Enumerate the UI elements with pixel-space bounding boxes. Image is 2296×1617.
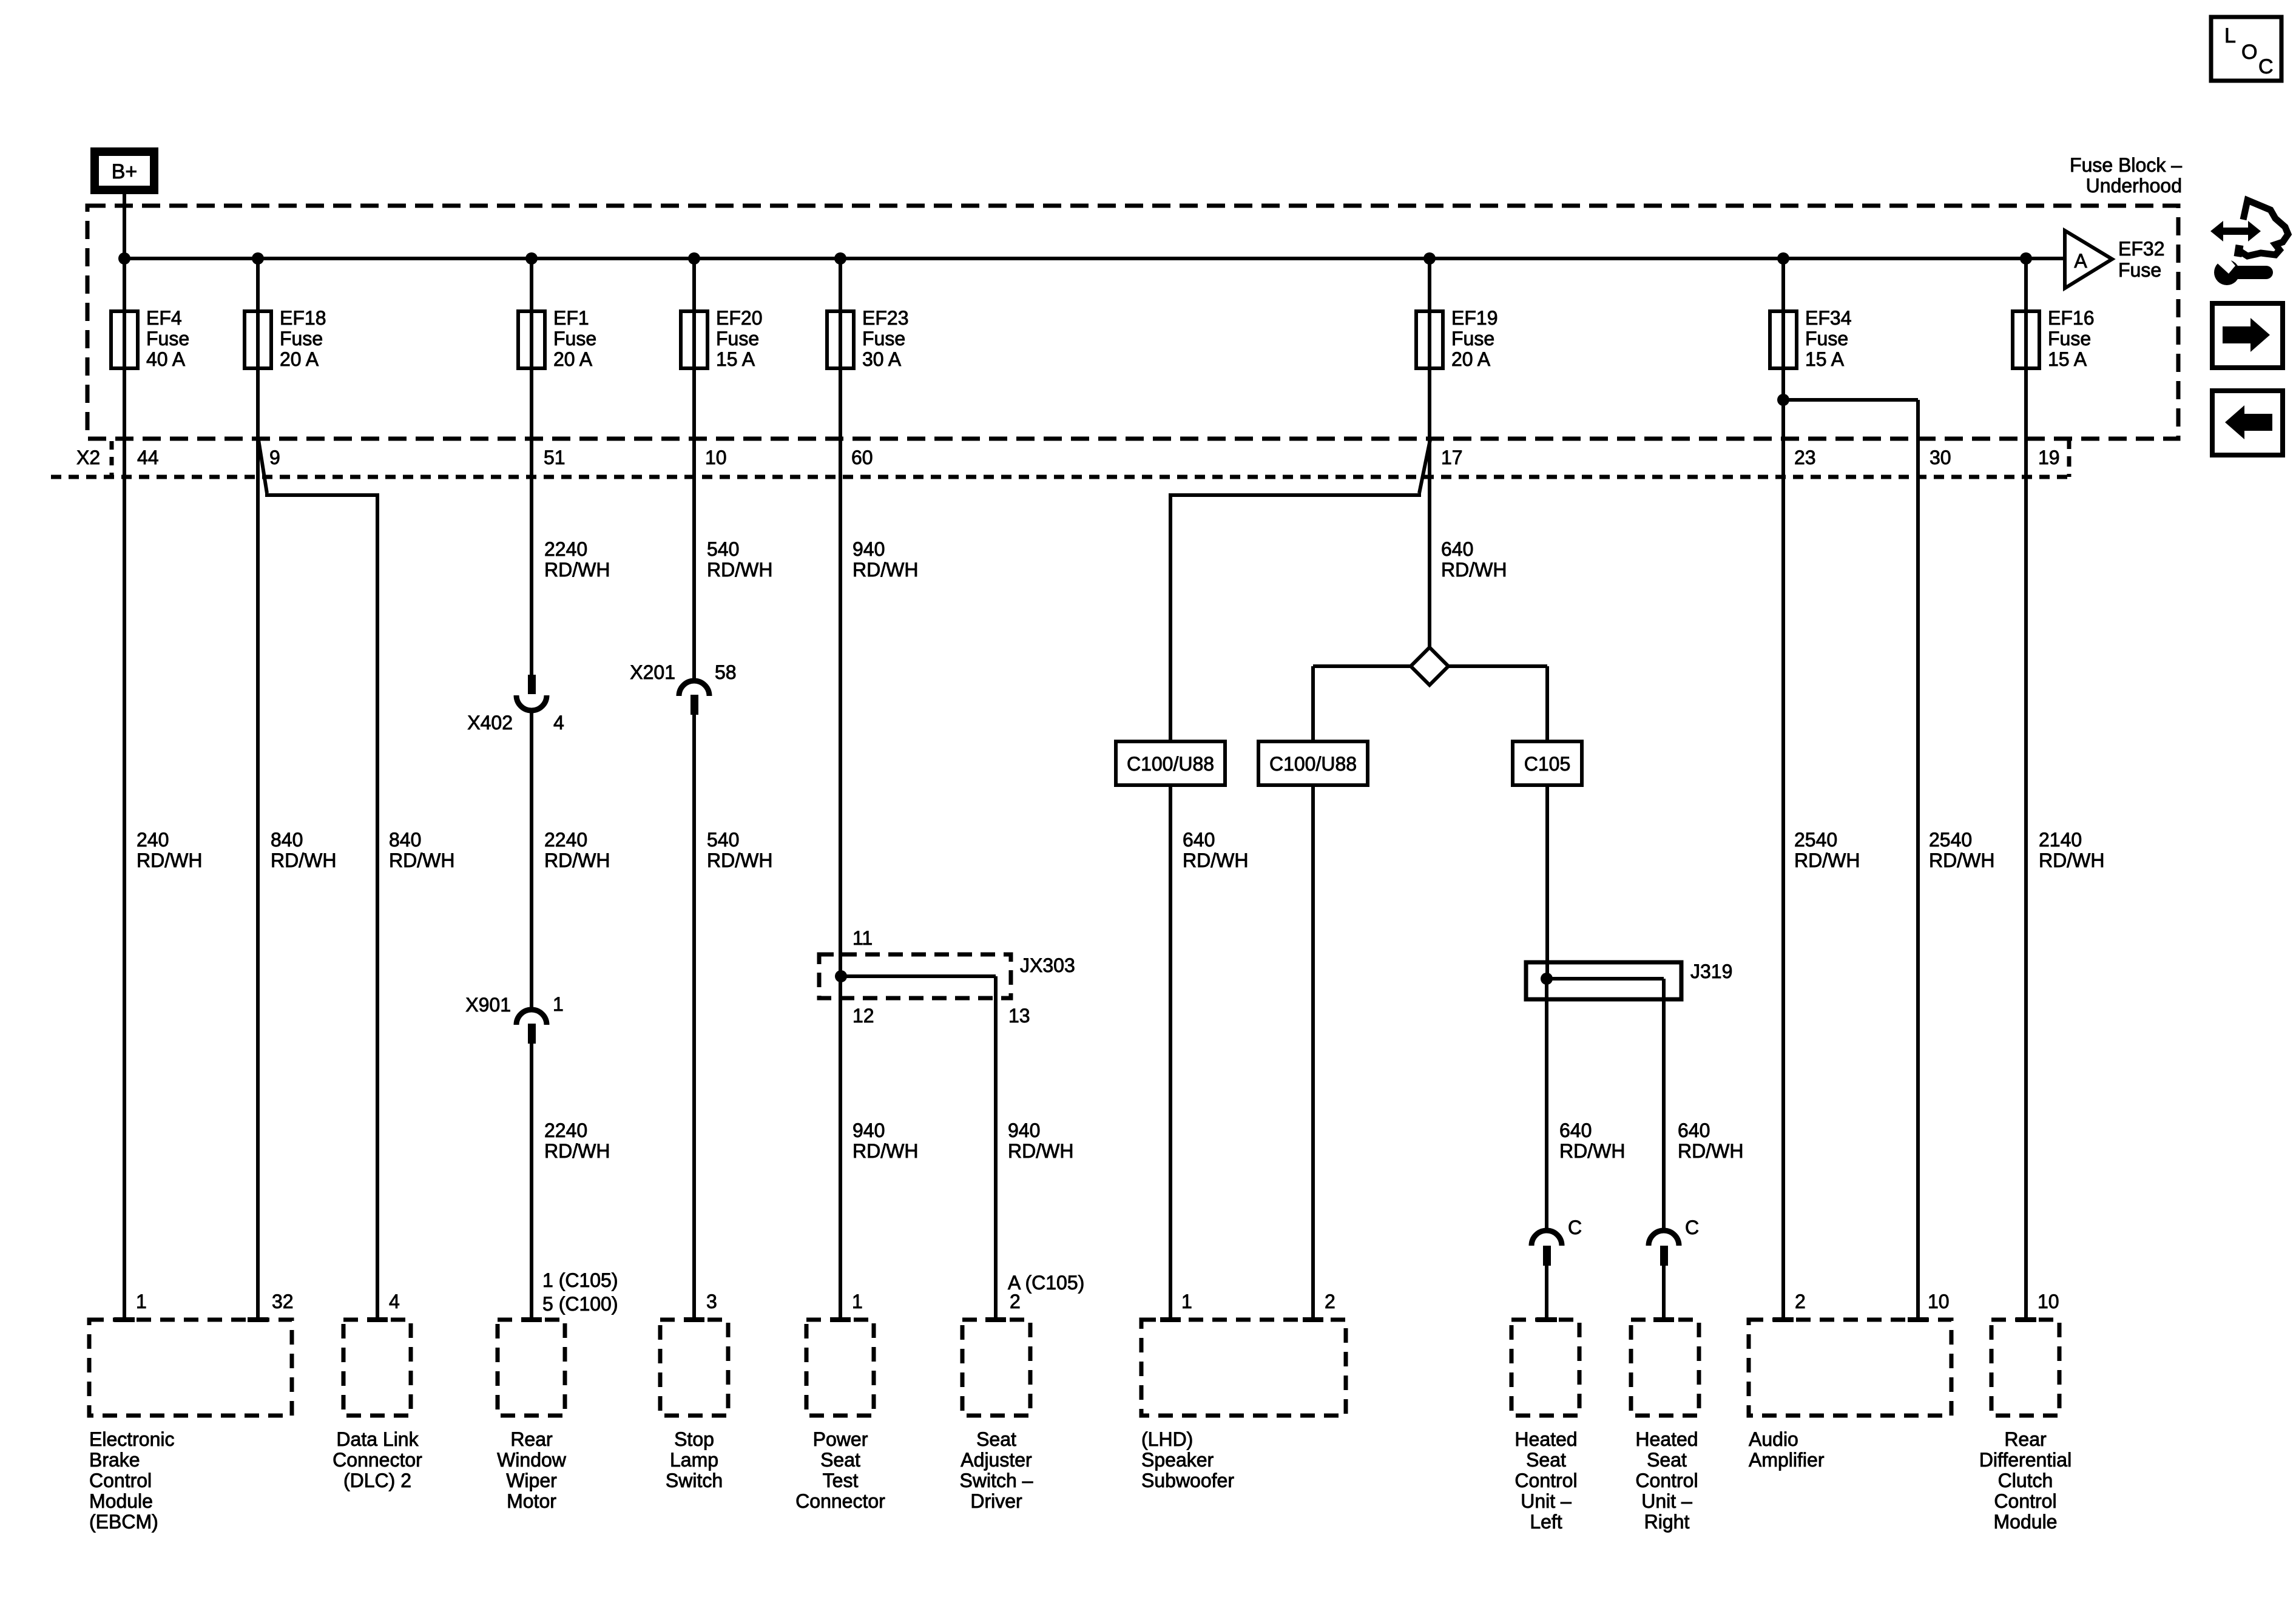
EF32 fuse label xyxy=(2118,238,2164,281)
wire label 940 RD/WH xyxy=(1008,1119,1073,1162)
fuse EF23 30 A xyxy=(827,258,908,370)
terminal tick seat adjuster pin 2 xyxy=(985,1317,1006,1322)
svg-text:19: 19 xyxy=(2038,447,2060,468)
svg-text:30 A: 30 A xyxy=(862,348,902,370)
svg-text:(LHD): (LHD) xyxy=(1141,1428,1193,1450)
fuse EF34 15 A xyxy=(1770,258,1851,370)
svg-text:940: 940 xyxy=(853,538,885,560)
component Rear Window Wiper Motor xyxy=(497,1320,567,1512)
svg-text:Module: Module xyxy=(89,1490,153,1512)
svg-text:EF4: EF4 xyxy=(146,307,182,329)
junction node in JX303 xyxy=(835,970,847,982)
svg-text:2540: 2540 xyxy=(1794,829,1837,851)
svg-text:RD/WH: RD/WH xyxy=(2039,849,2104,871)
svg-text:Control: Control xyxy=(1635,1470,1698,1491)
inline connector X402 pin 4 (male pin into socket) xyxy=(516,675,547,711)
junction node on bus at fuse EF4 xyxy=(118,252,130,265)
branch wire right from diamond to C105 xyxy=(1448,664,1547,668)
svg-text:30: 30 xyxy=(1930,447,1951,468)
svg-text:Clutch: Clutch xyxy=(1998,1470,2053,1491)
wire label 940 RD/WH xyxy=(853,538,918,581)
svg-text:C100/U88: C100/U88 xyxy=(1269,753,1357,775)
bus wire from B+ feeding all fuses xyxy=(124,257,2065,260)
svg-text:RD/WH: RD/WH xyxy=(1929,849,1994,871)
svg-text:O: O xyxy=(2241,41,2257,64)
svg-text:640: 640 xyxy=(1559,1119,1592,1141)
svg-text:9: 9 xyxy=(269,447,280,468)
wire 640 RD/WH J319 to heated seat right xyxy=(1662,979,1666,1230)
svg-text:EF32: EF32 xyxy=(2118,238,2164,260)
wire 2140 RD/WH from fuse EF16 pin 19 to rear differential module pin 10 xyxy=(2024,368,2028,1320)
svg-text:2240: 2240 xyxy=(544,829,587,851)
wire B+ to bus xyxy=(123,192,126,258)
svg-text:Electronic: Electronic xyxy=(89,1428,175,1450)
svg-text:EF1: EF1 xyxy=(553,307,589,329)
svg-text:20 A: 20 A xyxy=(553,348,593,370)
svg-text:2240: 2240 xyxy=(544,1119,587,1141)
svg-text:(DLC) 2: (DLC) 2 xyxy=(343,1470,411,1491)
svg-text:5 (C100): 5 (C100) xyxy=(542,1293,618,1315)
svg-text:RD/WH: RD/WH xyxy=(853,1140,918,1162)
junction node on bus at fuse EF23 xyxy=(834,252,846,265)
svg-text:20 A: 20 A xyxy=(1451,348,1491,370)
branch wire left from diamond to C100/U88 second xyxy=(1313,664,1411,668)
svg-text:Switch –: Switch – xyxy=(960,1470,1033,1491)
svg-text:Fuse: Fuse xyxy=(716,328,759,349)
svg-text:RD/WH: RD/WH xyxy=(1183,849,1248,871)
off-page connector A to EF32 fuse xyxy=(2065,231,2112,288)
wire to heated seat control unit right xyxy=(1662,1266,1666,1320)
svg-text:RD/WH: RD/WH xyxy=(707,559,772,581)
svg-text:C100/U88: C100/U88 xyxy=(1127,753,1214,775)
svg-text:2540: 2540 xyxy=(1929,829,1972,851)
J319 internal bus wire xyxy=(1547,977,1664,981)
svg-text:B+: B+ xyxy=(112,160,138,183)
svg-text:Test: Test xyxy=(823,1470,859,1491)
fuse block underhood dashed boundary xyxy=(87,206,2178,439)
svg-text:JX303: JX303 xyxy=(1020,954,1075,976)
svg-text:940: 940 xyxy=(1008,1119,1040,1141)
back arrow box xyxy=(2212,391,2283,455)
terminal tick wiper motor pin xyxy=(521,1317,542,1322)
svg-text:Lamp: Lamp xyxy=(670,1449,718,1471)
wire 240 RD/WH from fuse EF4 pin 44 to EBCM pin 1 xyxy=(123,368,126,1320)
svg-text:Fuse: Fuse xyxy=(553,328,596,349)
wire 2240 RD/WH from X901 to wiper motor xyxy=(530,1044,533,1320)
wire 2540 RD/WH from fuse EF34 pin 23 to audio amplifier pin 2 xyxy=(1781,368,1785,1320)
svg-text:RD/WH: RD/WH xyxy=(137,849,202,871)
svg-text:10: 10 xyxy=(2038,1291,2059,1312)
svg-text:540: 540 xyxy=(707,538,739,560)
svg-text:Switch: Switch xyxy=(666,1470,723,1491)
svg-text:RD/WH: RD/WH xyxy=(1794,849,1860,871)
svg-text:58: 58 xyxy=(715,661,737,683)
component Heated Seat Control Unit - Right xyxy=(1631,1320,1699,1533)
wire label 640 RD/WH xyxy=(1678,1119,1743,1162)
svg-text:J319: J319 xyxy=(1690,960,1732,982)
svg-text:Control: Control xyxy=(1514,1470,1577,1491)
component (LHD) Speaker Subwoofer xyxy=(1141,1320,1346,1491)
svg-text:A: A xyxy=(2074,250,2087,272)
terminal tick subwoofer pin 1 xyxy=(1160,1317,1181,1322)
svg-text:Right: Right xyxy=(1644,1511,1690,1533)
svg-text:1: 1 xyxy=(136,1291,147,1312)
svg-text:2140: 2140 xyxy=(2039,829,2082,851)
svg-text:X2: X2 xyxy=(76,447,100,468)
svg-text:C105: C105 xyxy=(1524,753,1571,775)
svg-text:RD/WH: RD/WH xyxy=(389,849,454,871)
svg-text:RD/WH: RD/WH xyxy=(544,559,610,581)
wiper motor pin label 1 (C105) / 5 (C100) xyxy=(542,1269,618,1315)
svg-text:RD/WH: RD/WH xyxy=(544,849,610,871)
svg-text:(EBCM): (EBCM) xyxy=(89,1511,158,1533)
svg-text:L: L xyxy=(2224,24,2236,47)
svg-text:1: 1 xyxy=(553,993,564,1015)
svg-text:44: 44 xyxy=(137,447,159,468)
ring terminal C left (socket over pin) xyxy=(1531,1230,1562,1266)
fuse EF20 15 A xyxy=(681,258,762,370)
svg-text:3: 3 xyxy=(706,1291,717,1312)
wire label 540 RD/WH xyxy=(707,829,772,871)
inline connector C100/U88 second xyxy=(1258,741,1368,785)
svg-text:Unit –: Unit – xyxy=(1641,1490,1692,1512)
inline connector C100/U88 first xyxy=(1116,741,1225,785)
junction node on bus at fuse EF20 xyxy=(688,252,700,265)
svg-text:12: 12 xyxy=(853,1005,874,1027)
svg-text:32: 32 xyxy=(272,1291,294,1312)
svg-text:Power: Power xyxy=(813,1428,868,1450)
svg-text:20 A: 20 A xyxy=(280,348,319,370)
terminal tick stop lamp pin 3 xyxy=(684,1317,704,1322)
connector X2 label separator xyxy=(110,441,114,476)
svg-text:15 A: 15 A xyxy=(2048,348,2087,370)
svg-text:Differential: Differential xyxy=(1979,1449,2071,1471)
terminal tick heated seat right pin C xyxy=(1653,1317,1674,1322)
wire 540 RD/WH from X201 to stop lamp switch pin 3 xyxy=(692,715,696,1320)
svg-text:15 A: 15 A xyxy=(716,348,755,370)
component Audio Amplifier xyxy=(1749,1320,1951,1471)
svg-text:X901: X901 xyxy=(465,994,511,1016)
svg-text:Left: Left xyxy=(1530,1511,1562,1533)
svg-text:RD/WH: RD/WH xyxy=(544,1140,610,1162)
svg-text:Underhood: Underhood xyxy=(2086,175,2182,197)
svg-text:Fuse: Fuse xyxy=(862,328,905,349)
junction node below EF34 xyxy=(1777,394,1789,406)
svg-text:17: 17 xyxy=(1441,447,1463,468)
wire label 2240 RD/WH xyxy=(544,538,610,581)
svg-text:Control: Control xyxy=(89,1470,152,1491)
svg-text:Heated: Heated xyxy=(1514,1428,1577,1450)
svg-text:2: 2 xyxy=(1325,1291,1335,1312)
junction node on bus at fuse EF1 xyxy=(525,252,538,265)
wire label 640 RD/WH to subwoofer pin 1 xyxy=(1183,829,1248,871)
component Power Seat Test Connector xyxy=(795,1320,885,1512)
svg-text:EF18: EF18 xyxy=(280,307,326,329)
svg-text:840: 840 xyxy=(271,829,303,851)
branch horizontal jog to x1929 xyxy=(1170,493,1421,497)
svg-text:11: 11 xyxy=(853,927,873,949)
svg-text:Seat: Seat xyxy=(820,1449,860,1471)
wire branch horizontal jog xyxy=(265,493,377,497)
svg-text:Wiper: Wiper xyxy=(506,1470,557,1491)
JX303 internal bus wire xyxy=(841,974,996,978)
fuse EF19 20 A xyxy=(1416,258,1497,370)
svg-text:Connector: Connector xyxy=(795,1490,885,1512)
component Stop Lamp Switch xyxy=(660,1320,728,1491)
wire label 2540 RD/WH xyxy=(1929,829,1994,871)
svg-text:840: 840 xyxy=(389,829,421,851)
svg-text:Audio: Audio xyxy=(1749,1428,1798,1450)
svg-text:Rear: Rear xyxy=(510,1428,553,1450)
svg-text:Fuse: Fuse xyxy=(2118,259,2161,281)
svg-text:C: C xyxy=(1685,1217,1699,1238)
svg-text:Stop: Stop xyxy=(674,1428,714,1450)
connector X2 strip bottom dashed line xyxy=(51,475,2069,479)
svg-text:640: 640 xyxy=(1441,538,1473,560)
svg-text:51: 51 xyxy=(544,447,566,468)
connector X2 strip right dashed edge xyxy=(2067,439,2071,477)
svg-text:RD/WH: RD/WH xyxy=(1559,1140,1625,1162)
branch diagonal from pin 17 toward C100/U88 left xyxy=(1419,440,1430,493)
svg-text:EF20: EF20 xyxy=(716,307,762,329)
wire 640 RD/WH down to C100/U88 first xyxy=(1169,493,1172,1320)
svg-text:Seat: Seat xyxy=(1647,1449,1687,1471)
svg-text:Amplifier: Amplifier xyxy=(1749,1449,1825,1471)
terminal tick audio amp pin 10 xyxy=(1908,1317,1928,1322)
terminal tick audio amp pin 2 xyxy=(1773,1317,1794,1322)
svg-text:EF16: EF16 xyxy=(2048,307,2094,329)
wire 2240 RD/WH from fuse EF1 pin 51 to connector X402 xyxy=(530,368,533,678)
inline connector X901 pin 1 (socket over pin) xyxy=(516,1010,547,1044)
svg-text:Module: Module xyxy=(1994,1511,2058,1533)
svg-text:C: C xyxy=(1568,1217,1582,1238)
svg-text:Unit –: Unit – xyxy=(1521,1490,1572,1512)
svg-text:Fuse: Fuse xyxy=(280,328,323,349)
svg-text:Fuse: Fuse xyxy=(1805,328,1848,349)
junction node on bus at fuse EF18 xyxy=(252,252,264,265)
fuse EF4 40 A xyxy=(111,258,189,370)
wire 2240 RD/WH from X402 to X901 xyxy=(530,711,533,1008)
svg-text:Adjuster: Adjuster xyxy=(961,1449,1032,1471)
svg-text:C: C xyxy=(2258,55,2274,78)
ring terminal C right (socket over pin) xyxy=(1649,1230,1679,1266)
terminal tick rear diff pin 10 xyxy=(2016,1317,2036,1322)
wire label 2540 RD/WH xyxy=(1794,829,1860,871)
component Rear Differential Clutch Control Module xyxy=(1979,1320,2071,1533)
wire label 940 RD/WH to power seat test connector xyxy=(853,1119,918,1162)
svg-text:4: 4 xyxy=(389,1291,400,1312)
svg-text:60: 60 xyxy=(851,447,873,468)
svg-text:Window: Window xyxy=(497,1449,567,1471)
wire branch from pin 9 to DLC2: diagonal xyxy=(258,440,267,493)
terminal tick heated seat left pin C xyxy=(1536,1317,1557,1322)
fuse block label xyxy=(2070,154,2182,197)
wire 640 RD/WH from fuse EF19 pin 17 to splice diamond xyxy=(1428,368,1431,649)
svg-text:940: 940 xyxy=(853,1119,885,1141)
fuse EF18 20 A xyxy=(245,258,326,370)
terminal tick subwoofer pin 2 xyxy=(1303,1317,1323,1322)
svg-text:10: 10 xyxy=(1928,1291,1950,1312)
component Seat Adjuster Switch - Driver xyxy=(960,1320,1033,1512)
wire label 840 RD/WH xyxy=(271,829,336,871)
svg-text:X201: X201 xyxy=(630,661,675,683)
splice diamond on 640 RD/WH xyxy=(1411,647,1448,685)
hand with wrench service icon xyxy=(2210,200,2288,285)
inline connector C105 xyxy=(1513,741,1582,785)
svg-text:X402: X402 xyxy=(467,712,513,734)
svg-text:Fuse Block –: Fuse Block – xyxy=(2070,154,2182,176)
svg-text:RD/WH: RD/WH xyxy=(707,849,772,871)
junction node in J319 xyxy=(1541,973,1553,985)
svg-text:2: 2 xyxy=(1010,1291,1021,1312)
svg-text:640: 640 xyxy=(1678,1119,1710,1141)
svg-text:540: 540 xyxy=(707,829,739,851)
wire 640 RD/WH J319 to heated seat left xyxy=(1545,979,1548,1230)
svg-text:EF34: EF34 xyxy=(1805,307,1851,329)
battery feed B+ xyxy=(95,152,154,190)
splice pack JX303 dashed box xyxy=(819,954,1011,998)
wire to heated seat control unit left xyxy=(1545,1266,1548,1320)
svg-text:1: 1 xyxy=(1181,1291,1192,1312)
svg-text:Connector: Connector xyxy=(333,1449,422,1471)
svg-text:Brake: Brake xyxy=(89,1449,140,1471)
wire label 840 RD/WH xyxy=(389,829,454,871)
svg-text:EF19: EF19 xyxy=(1451,307,1497,329)
wire label 2240 RD/WH xyxy=(544,1119,610,1162)
svg-text:Fuse: Fuse xyxy=(2048,328,2091,349)
terminal tick DLC2 pin 4 xyxy=(367,1317,388,1322)
component Data Link Connector (DLC) 2 xyxy=(333,1320,422,1491)
svg-text:10: 10 xyxy=(705,447,727,468)
junction node on bus at fuse EF19 xyxy=(1423,252,1436,265)
wire 840 RD/WH down to DLC2 pin 4 xyxy=(376,493,379,1320)
junction node on bus at fuse EF16 xyxy=(2020,252,2032,265)
svg-text:EF23: EF23 xyxy=(862,307,908,329)
wire 840 RD/WH from fuse EF18 pin 9 to EBCM pin 32 xyxy=(256,368,260,1320)
svg-text:Rear: Rear xyxy=(2004,1428,2047,1450)
svg-text:Fuse: Fuse xyxy=(1451,328,1494,349)
fuse EF16 15 A xyxy=(2013,258,2094,370)
svg-text:40 A: 40 A xyxy=(146,348,186,370)
svg-text:2240: 2240 xyxy=(544,538,587,560)
svg-text:Seat: Seat xyxy=(976,1428,1016,1450)
forward arrow box xyxy=(2212,303,2283,368)
wire 940 RD/WH from fuse EF23 pin 60 to splice JX303 pin 11 xyxy=(839,368,842,1320)
wire label 240 RD/WH xyxy=(137,829,202,871)
svg-text:RD/WH: RD/WH xyxy=(1678,1140,1743,1162)
svg-text:13: 13 xyxy=(1008,1005,1030,1027)
svg-text:23: 23 xyxy=(1794,447,1816,468)
svg-text:RD/WH: RD/WH xyxy=(853,559,918,581)
fuse EF1 20 A xyxy=(518,258,596,370)
component Heated Seat Control Unit - Left xyxy=(1511,1320,1579,1533)
svg-text:4: 4 xyxy=(553,712,564,734)
svg-text:Speaker: Speaker xyxy=(1141,1449,1214,1471)
terminal tick power seat pin 1 xyxy=(830,1317,851,1322)
wire 540 RD/WH from fuse EF20 pin 10 to connector X201 xyxy=(692,368,696,681)
svg-text:Motor: Motor xyxy=(507,1490,556,1512)
wire label 540 RD/WH xyxy=(707,538,772,581)
branch wire to pin 30 xyxy=(1783,398,1918,402)
svg-text:Seat: Seat xyxy=(1526,1449,1566,1471)
svg-text:1: 1 xyxy=(852,1291,863,1312)
inline connector X201 pin 58 (socket over pin) xyxy=(679,681,709,715)
svg-text:Subwoofer: Subwoofer xyxy=(1141,1470,1234,1491)
svg-text:Data Link: Data Link xyxy=(336,1428,419,1450)
svg-text:2: 2 xyxy=(1795,1291,1806,1312)
svg-text:15 A: 15 A xyxy=(1805,348,1845,370)
svg-text:Heated: Heated xyxy=(1635,1428,1698,1450)
svg-text:Control: Control xyxy=(1994,1490,2056,1512)
svg-text:640: 640 xyxy=(1183,829,1215,851)
terminal tick EBCM pin 32 xyxy=(248,1317,268,1322)
svg-text:1 (C105): 1 (C105) xyxy=(542,1269,618,1291)
wire label 640 RD/WH xyxy=(1441,538,1507,581)
svg-text:240: 240 xyxy=(137,829,169,851)
wire label 640 RD/WH xyxy=(1559,1119,1625,1162)
splice J319 solid box xyxy=(1526,962,1681,999)
LOC reference box xyxy=(2211,17,2281,81)
svg-text:Driver: Driver xyxy=(970,1490,1022,1512)
component Electronic Brake Control Module (EBCM) xyxy=(89,1320,292,1533)
svg-text:Fuse: Fuse xyxy=(146,328,189,349)
wire label 2240 RD/WH xyxy=(544,829,610,871)
wire label 2140 RD/WH xyxy=(2039,829,2104,871)
svg-text:RD/WH: RD/WH xyxy=(271,849,336,871)
svg-text:RD/WH: RD/WH xyxy=(1441,559,1507,581)
terminal tick EBCM pin 1 xyxy=(114,1317,135,1322)
junction node on bus at fuse EF34 xyxy=(1777,252,1789,265)
wire 940 RD/WH from JX303 pin 13 to seat adjuster switch xyxy=(994,976,998,1320)
svg-text:RD/WH: RD/WH xyxy=(1008,1140,1073,1162)
